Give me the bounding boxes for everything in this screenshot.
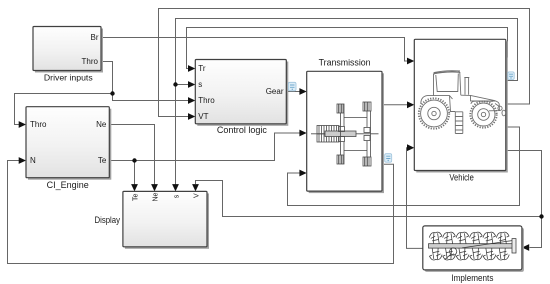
- svg-text:VT: VT: [198, 112, 208, 121]
- junction dot V: [539, 214, 543, 218]
- svg-text:Ne: Ne: [96, 120, 107, 129]
- wire Thro: Driver inputs.Thro to junction, Control logic.Thro and CI_Engine.Thro: [15, 62, 189, 125]
- icon transmission gearbox: [311, 102, 379, 166]
- svg-text:Ne: Ne: [152, 192, 159, 201]
- svg-text:Te: Te: [132, 194, 139, 202]
- svg-text:Te: Te: [98, 156, 107, 165]
- junction dot Thro: [110, 91, 114, 95]
- arrowhead CI_Engine.N: [19, 157, 26, 164]
- svg-text:Thro: Thro: [30, 120, 47, 129]
- svg-text:Implements: Implements: [451, 273, 493, 283]
- wire Br: Driver inputs.Br to Vehicle.in1: [101, 38, 407, 62]
- junction dot Te: [132, 158, 136, 162]
- block Driver inputs: [33, 27, 103, 83]
- svg-text:s: s: [198, 80, 202, 89]
- svg-text:Thro: Thro: [198, 96, 215, 105]
- svg-text:Tr: Tr: [198, 64, 206, 73]
- arrowhead Transmission.in1: [299, 88, 306, 95]
- arrowhead Control.VT: [188, 113, 195, 120]
- arrowhead Implements.in (points left): [522, 244, 529, 251]
- svg-text:Control logic: Control logic: [217, 125, 267, 135]
- svg-text:Thro: Thro: [82, 57, 99, 66]
- arrowhead Control.s: [188, 81, 195, 88]
- svg-text:s: s: [173, 194, 180, 198]
- svg-text:Transmission: Transmission: [319, 58, 371, 68]
- badge Gear output: [288, 82, 296, 91]
- arrowhead Vehicle.in3: [407, 144, 414, 151]
- svg-text:N: N: [30, 156, 36, 165]
- arrowhead Display.Te: [131, 184, 138, 191]
- svg-text:Driver inputs: Driver inputs: [44, 73, 93, 83]
- icon plows: [429, 232, 517, 260]
- wire Vehicle.out4 to Transmission.in3: [288, 127, 520, 206]
- block Transmission: [307, 58, 384, 194]
- block CI_Engine: [26, 107, 111, 190]
- wire Gear: Control logic.Gear to Transmission.in1: [286, 91, 299, 93]
- wire rail1: Vehicle.out3 to Control logic.VT: [159, 9, 530, 117]
- junction dot s: [173, 82, 177, 86]
- wire V: Vehicle.out5 to Implements and Display.V: [196, 151, 542, 248]
- wire rail3: Vehicle.out1 to Control logic.Tr: [187, 28, 508, 69]
- wire rail2: Vehicle.out2 to Control logic.s and Display.s: [176, 19, 518, 185]
- block Display: [95, 191, 210, 248]
- block Control logic: [195, 60, 288, 136]
- svg-text:Vehicle: Vehicle: [449, 172, 474, 182]
- wire Implements.out to Vehicle.in3: [407, 148, 423, 249]
- arrowhead Transmission.in2: [299, 130, 306, 137]
- svg-text:Display: Display: [95, 215, 121, 225]
- arrowhead Vehicle.in2: [407, 101, 414, 108]
- svg-text:Gear: Gear: [266, 87, 284, 96]
- arrowhead Display.V: [192, 184, 199, 191]
- block Implements: [423, 226, 524, 283]
- badge Transmission out2: [385, 154, 392, 163]
- wire Te: CI_Engine.Te to Display.Te and Transmission.in2: [109, 133, 299, 185]
- wire Ne: CI_Engine.Ne to Display.Ne: [109, 125, 154, 185]
- svg-text:CI_Engine: CI_Engine: [47, 180, 89, 190]
- arrowhead Vehicle.in1: [407, 58, 414, 65]
- badge Vehicle out2: [508, 72, 514, 80]
- svg-text:V: V: [193, 193, 200, 198]
- svg-text:Br: Br: [91, 33, 99, 42]
- arrowhead Display.s: [172, 184, 179, 191]
- wire N feedback: Transmission.out2 to CI_Engine.N: [8, 161, 394, 264]
- wire Transmission.out1 to Vehicle.in2: [382, 104, 408, 106]
- arrowhead Control.Thro: [188, 97, 195, 104]
- arrowhead CI_Engine.Thro: [19, 121, 26, 128]
- block Vehicle: [414, 39, 508, 182]
- icon tractor: [419, 71, 506, 134]
- arrowhead Display.Ne: [151, 184, 158, 191]
- arrowhead Transmission.in3: [299, 170, 306, 177]
- arrowhead Control.Tr: [188, 65, 195, 72]
